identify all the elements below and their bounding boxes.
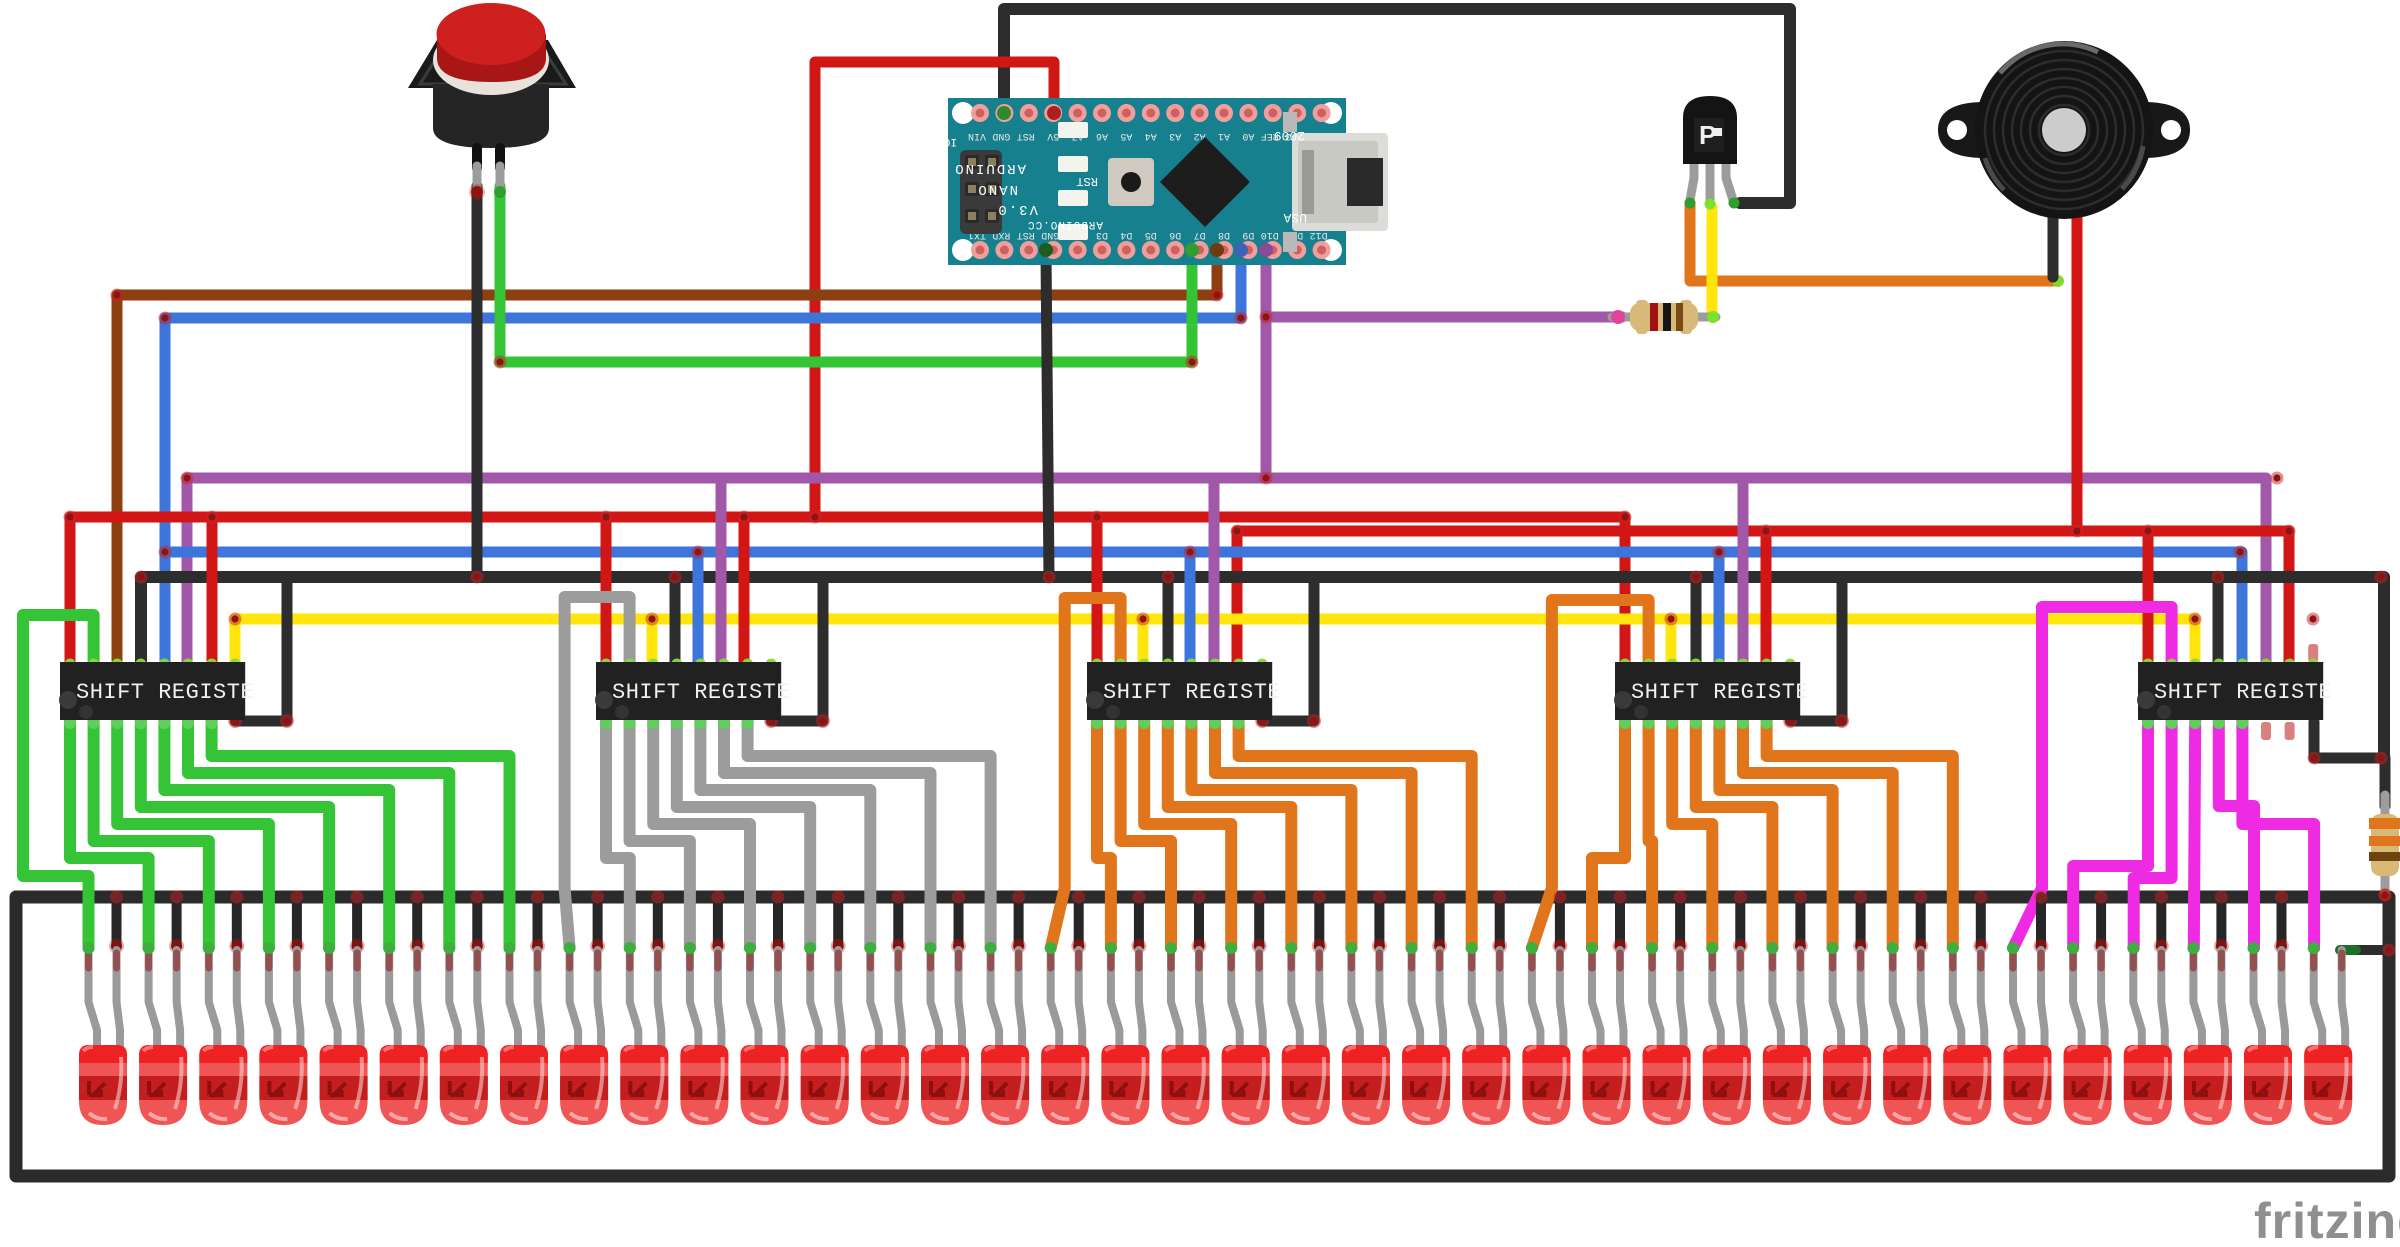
svg-text:P: P — [1699, 120, 1716, 150]
svg-text:A1: A1 — [1218, 130, 1230, 141]
svg-text:D6: D6 — [1169, 229, 1181, 240]
svg-text:SHIFT REGISTE: SHIFT REGISTE — [1631, 680, 1809, 705]
svg-text:A0: A0 — [1242, 130, 1254, 141]
svg-text:SHIFT REGISTE: SHIFT REGISTE — [612, 680, 790, 705]
svg-text:5V: 5V — [1047, 130, 1059, 141]
svg-text:VIN: VIN — [968, 130, 986, 141]
svg-text:SHIFT REGISTE: SHIFT REGISTE — [76, 680, 254, 705]
svg-text:D5: D5 — [1145, 229, 1157, 240]
svg-text:ICSP: ICSP — [930, 135, 957, 147]
svg-text:D4: D4 — [1120, 229, 1132, 240]
svg-text:ARDUINO: ARDUINO — [953, 160, 1026, 176]
svg-text:RST: RST — [1017, 130, 1035, 141]
svg-text:2009: 2009 — [1274, 128, 1305, 143]
svg-text:D10: D10 — [1261, 229, 1279, 240]
svg-text:D7: D7 — [1194, 229, 1206, 240]
svg-text:GND: GND — [992, 130, 1010, 141]
svg-text:V3.0: V3.0 — [996, 201, 1038, 217]
svg-text:A4: A4 — [1145, 130, 1157, 141]
svg-text:USA: USA — [1283, 210, 1307, 225]
svg-text:A6: A6 — [1096, 130, 1108, 141]
svg-text:NANO: NANO — [976, 181, 1018, 197]
svg-text:D8: D8 — [1218, 229, 1230, 240]
svg-text:A3: A3 — [1169, 130, 1181, 141]
svg-text:D9: D9 — [1242, 229, 1254, 240]
svg-text:ARDUINO.CC: ARDUINO.CC — [1027, 218, 1103, 230]
svg-text:SHIFT REGISTE: SHIFT REGISTE — [1103, 680, 1281, 705]
svg-text:fritzing: fritzing — [2254, 1193, 2400, 1247]
svg-text:A5: A5 — [1120, 130, 1132, 141]
svg-text:RST: RST — [1076, 174, 1098, 188]
svg-text:SHIFT REGISTE: SHIFT REGISTE — [2154, 680, 2332, 705]
